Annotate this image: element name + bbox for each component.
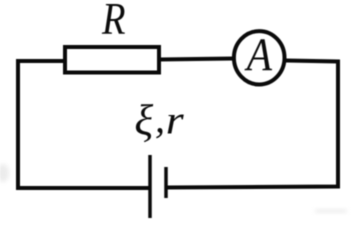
battery cell: short plate [164,167,168,198]
svg-text:R: R [101,0,125,45]
svg-text:ξ: ξ [134,97,153,145]
faint scan smudge left edge [0,164,9,182]
wire: ammeter to top-right corner, right vertical, bottom-right run to battery [166,61,338,188]
resistor R [65,47,159,73]
svg-text:,: , [155,96,165,141]
label xi, r (EMF and internal resistance) [134,96,183,144]
wire: resistor to ammeter [159,59,234,60]
svg-text:A: A [244,29,273,81]
faint scan smudge bottom-right [315,209,347,213]
ammeter A [234,29,285,85]
svg-text:r: r [166,99,184,143]
wire: top-left segment, left vertical, bottom-left run to battery [18,61,149,188]
battery cell: long plate [148,155,152,218]
label R [101,0,125,45]
